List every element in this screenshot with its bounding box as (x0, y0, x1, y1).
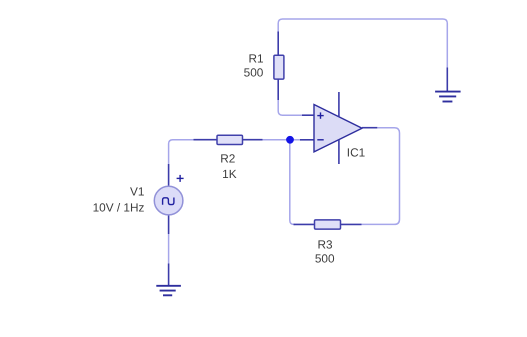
wire: R3 to IC1 output (feedback right side) (362, 128, 400, 225)
wire: node A to IC1 inverting input (290, 139, 301, 141)
svg-text:R2: R2 (220, 151, 235, 165)
wire: V1 bottom to ground (168, 234, 170, 264)
wire: V1 top to R2 (169, 140, 194, 164)
voltage source V1 (154, 164, 183, 234)
wire: R1 top to top-right ground (top horizontal run) (278, 19, 447, 68)
svg-text:1K: 1K (222, 167, 237, 181)
svg-text:500: 500 (244, 65, 264, 79)
wire: R2 to node A (263, 139, 291, 141)
wire: R1 bottom to IC1 non-inverting input (278, 100, 302, 115)
resistor R1 (274, 32, 284, 101)
label V1 polarity + (177, 175, 184, 182)
node A (junction dot) (286, 136, 294, 144)
ground (below V1) (156, 264, 181, 296)
ground (top right) (435, 68, 461, 102)
svg-text:500: 500 (315, 251, 335, 265)
op-amp IC1 (302, 92, 377, 164)
svg-text:R1: R1 (248, 52, 263, 66)
resistor R3 (294, 220, 362, 229)
svg-text:10V / 1Hz: 10V / 1Hz (93, 201, 145, 215)
resistor R2 (194, 135, 263, 144)
wire: node A down to R3 (290, 140, 295, 225)
svg-text:V1: V1 (130, 184, 144, 198)
svg-text:IC1: IC1 (347, 146, 365, 160)
svg-text:R3: R3 (317, 237, 333, 251)
